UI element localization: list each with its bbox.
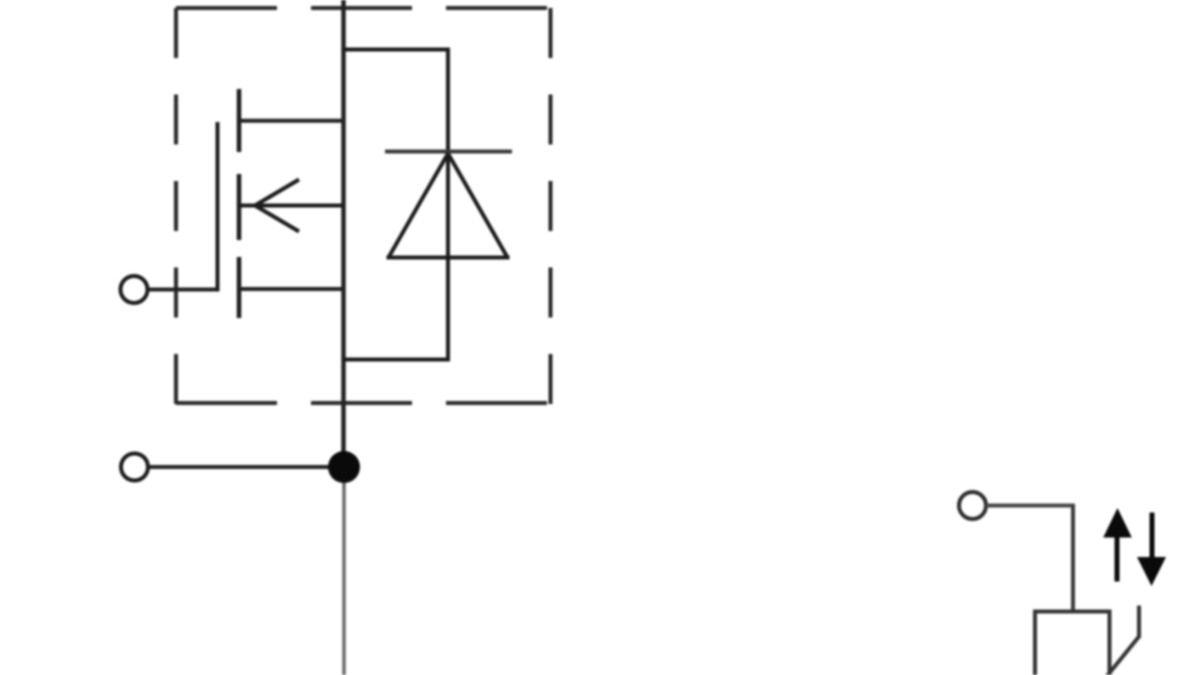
- dashed enclosure (module outline): [176, 8, 551, 405]
- wire: source terminal to junction: [148, 465, 340, 469]
- wire: right vertical drop: [1071, 506, 1075, 614]
- junction node (solder dot): [328, 451, 360, 483]
- right terminal: [959, 492, 986, 519]
- mosfet Q1 drain connection: [239, 119, 344, 123]
- mosfet Q1 gate line: [216, 122, 220, 292]
- mosfet Q1 source connection: [239, 287, 344, 291]
- down arrow: [1137, 513, 1166, 587]
- switch hook (partial symbol, cut off): [1107, 606, 1139, 675]
- wire: drain main vertical (top edge to junction): [341, 0, 346, 460]
- mosfet Q1 gate terminal: [121, 276, 148, 303]
- wire: source vertical below junction: [342, 467, 346, 675]
- up arrow: [1103, 508, 1132, 582]
- wire: body diode top: [344, 48, 451, 52]
- wire: gate terminal to gate: [148, 288, 218, 292]
- partial box (cut off at bottom edge): [1035, 612, 1110, 675]
- body diode D1 triangle: [387, 154, 510, 258]
- wire: right terminal horizontal: [986, 504, 1075, 508]
- body diode D1 cathode bar: [385, 150, 512, 154]
- mosfet Q1 channel dashes: [237, 89, 242, 318]
- wire: body diode bottom: [344, 358, 451, 362]
- source terminal: [121, 454, 148, 481]
- body diode D1 cathode lead: [446, 50, 450, 360]
- mosfet Q1 body connection with arrow: [241, 180, 344, 232]
